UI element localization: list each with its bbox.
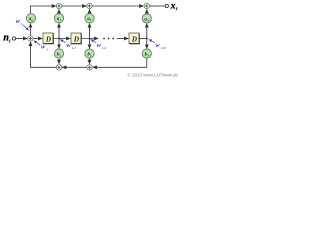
adder top A2 — [87, 3, 92, 8]
svg-text:i-N: i-N — [161, 46, 166, 50]
coefficient a0 — [26, 14, 35, 23]
adder bottom B2 — [87, 65, 92, 70]
svg-text:i-2: i-2 — [102, 46, 106, 50]
svg-text:w: w — [16, 18, 21, 25]
coefficient a2 — [85, 14, 94, 23]
coefficient b2 — [85, 49, 94, 58]
coefficient a1 — [54, 14, 63, 23]
wire: bottom line colN corner to bottom adder B2 — [93, 66, 147, 68]
wire: colN junction down to bN circle — [146, 39, 148, 49]
node label w_i-2 (col2) — [91, 40, 106, 50]
wire: top line adder A1 to adder A2 — [62, 5, 87, 7]
wire: dots to D3 — [117, 38, 129, 40]
wire: b2 circle down to bottom adder B2 — [89, 58, 91, 64]
wire: col2 vertical a2 circle to top adder A2 — [89, 9, 91, 14]
coefficient b1 — [54, 49, 63, 58]
node label w_i (col0 upper) — [16, 18, 29, 30]
wire: bN circle down to bottom line corner — [146, 58, 148, 67]
wire: bottom adder B1 left and up to mid adder (feedback) — [31, 42, 57, 68]
node label w_i-N (colN) — [149, 40, 166, 50]
wire: input to mid adder — [16, 38, 28, 40]
wire: col1 junction down to b1 circle — [58, 39, 60, 49]
wire: col1 vertical junction up to a1 circle — [58, 23, 60, 38]
wire: col0 vertical adder to a0 circle — [30, 24, 32, 36]
coefficient bN — [142, 49, 151, 58]
coefficient aN — [142, 14, 151, 23]
junction node colN — [146, 38, 148, 40]
node label w_i (col0 lower) — [34, 41, 48, 52]
junction node col2 — [89, 38, 91, 40]
adder top A3 — [144, 3, 149, 8]
wire: bottom adder B2 to bottom adder B1 — [62, 66, 87, 68]
svg-text:w: w — [97, 42, 102, 49]
svg-text:i: i — [21, 22, 22, 26]
svg-text:w: w — [41, 44, 46, 51]
wire: col1 vertical a1 circle to top adder A1 — [58, 9, 60, 14]
wire: top line col0 corner to adder A1 — [31, 6, 56, 14]
wire: col2 junction down to b2 circle — [89, 39, 91, 49]
input terminal circle — [12, 37, 15, 40]
svg-text:D: D — [131, 35, 137, 43]
svg-text:D: D — [45, 35, 51, 43]
junction node col1 — [58, 38, 60, 40]
svg-text:D: D — [73, 35, 79, 43]
delay D1 — [43, 33, 53, 44]
delay D3 — [129, 33, 139, 44]
wire: D2 to arrow before dots — [81, 38, 98, 40]
wire: colN vertical junction up to aN circle — [146, 23, 148, 38]
output terminal circle — [165, 4, 168, 7]
adder top A1 — [56, 3, 61, 8]
wire: top line adder A2 to adder A3 — [92, 5, 143, 7]
wire: colN vertical aN circle to top adder A3 — [146, 9, 148, 14]
wire: D1 to D2 through junction col1 — [53, 38, 70, 40]
node label w_i-1 (col1) — [60, 40, 76, 50]
delay D2 — [71, 33, 81, 44]
svg-text:w: w — [66, 42, 71, 49]
svg-text:© 2013 www.LNTwww.de: © 2013 www.LNTwww.de — [127, 72, 178, 78]
wire: D3 to junction colN — [139, 38, 147, 40]
adder bottom B1 — [56, 65, 61, 70]
svg-text:i-1: i-1 — [72, 46, 76, 50]
wire: mid adder to D1 — [33, 38, 42, 40]
svg-text:x: x — [170, 0, 176, 11]
adder mid M0 — [28, 36, 33, 41]
wire: b1 circle down to bottom adder B1 — [58, 58, 60, 64]
wire: top line adder A3 to output terminal — [150, 5, 166, 7]
svg-text:w: w — [155, 42, 160, 49]
svg-text:i: i — [47, 48, 48, 52]
dots ellipsis middle line — [103, 38, 105, 40]
wire: col2 vertical junction up to a2 circle — [89, 23, 91, 38]
